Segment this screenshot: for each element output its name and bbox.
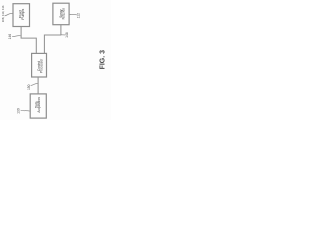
leader 150 (31, 83, 38, 85)
leader 130 (21, 109, 30, 112)
leader 112 (70, 13, 77, 16)
svg-text:Pumps: Pumps (21, 9, 25, 20)
label Control Processor (37, 58, 44, 73)
leader 148 (61, 34, 65, 36)
svg-text:FIG. 3: FIG. 3 (99, 50, 106, 70)
box 112 Spray Nozzles (53, 3, 69, 25)
svg-text:108, 110, 116: 108, 110, 116 (1, 5, 5, 22)
leader 108/110/116 (5, 13, 13, 15)
svg-text:Processor: Processor (39, 58, 43, 73)
box Control Processor (32, 53, 47, 77)
box 108/110/116 Fluid Pumps (13, 4, 30, 27)
svg-text:146: 146 (8, 34, 12, 40)
wire 150 Control Processor to Data Acquisition (37, 77, 39, 94)
box 130 Data Acquisition (30, 94, 46, 118)
wire 146 Fluid Pumps to Control Processor (21, 27, 36, 54)
label Fluid Pumps (18, 9, 25, 20)
label Data Acquisition (34, 97, 41, 113)
svg-text:112: 112 (77, 13, 81, 18)
wire 148 Spray Nozzles to Control Processor (44, 25, 61, 54)
svg-text:150: 150 (27, 84, 31, 90)
svg-text:130: 130 (17, 108, 21, 114)
svg-text:Acquisition: Acquisition (37, 97, 41, 113)
svg-text:Nozzles: Nozzles (61, 8, 65, 20)
svg-text:148: 148 (65, 32, 69, 38)
leader 146 (12, 36, 21, 37)
label Spray Nozzles (59, 8, 66, 20)
